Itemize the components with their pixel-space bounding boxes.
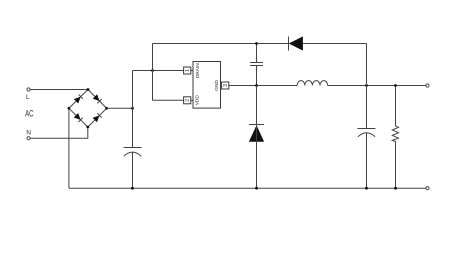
svg-text:DRAIN: DRAIN bbox=[195, 63, 201, 78]
capacitor C1 input filter (polarized) bbox=[124, 147, 142, 149]
svg-text:AC: AC bbox=[25, 108, 34, 119]
wire bridge positive (right node) to input cap node bbox=[107, 107, 133, 109]
wire inductor to output line bbox=[328, 85, 426, 87]
wire VDD line to IC pin 2 bbox=[153, 99, 194, 101]
IC U1 body bbox=[193, 62, 221, 109]
wire top rail bbox=[153, 43, 367, 45]
junction dot R1 bottom rail bbox=[394, 187, 397, 190]
junction dot output line / R1 bbox=[394, 84, 397, 87]
diode D5 on top rail (cathode left) bbox=[289, 36, 303, 50]
wire top rail right end down to output node bbox=[366, 44, 368, 86]
bridge diode D4 (bottom node to right node) bbox=[93, 113, 102, 122]
junction dot drain line / top rail branch bbox=[151, 69, 154, 72]
junction dot D6 bottom rail bbox=[255, 187, 258, 190]
junction dot bridge left node bbox=[68, 107, 71, 110]
junction dot bridge bottom node bbox=[86, 126, 89, 129]
inductor L1 bbox=[297, 81, 327, 86]
capacitor C2 (top, between top rail and switch node) bbox=[250, 62, 263, 64]
wire switch node line from pin 3 to inductor bbox=[229, 85, 297, 87]
junction dot C3 bottom rail bbox=[365, 187, 368, 190]
bridge diode D2 (top node to right node) bbox=[93, 94, 102, 103]
wire C3 to bottom rail bbox=[366, 133, 368, 189]
junction dot bridge right node bbox=[105, 107, 108, 110]
capacitor C3 output (polarized) bbox=[358, 128, 376, 130]
wire N terminal to bridge bottom node bbox=[30, 127, 88, 138]
junction dot top rail / C2 bbox=[255, 42, 258, 45]
svg-text:2: 2 bbox=[185, 99, 191, 102]
wire bridge negative (left node) down to bottom rail bbox=[68, 108, 70, 188]
terminal L (AC live input) bbox=[27, 88, 30, 91]
junction dot switch node / C2 / D6 bbox=[255, 84, 258, 87]
wire output node down to C3 bbox=[366, 86, 368, 129]
wire top rail to C2 bbox=[256, 44, 258, 63]
terminal N (AC neutral input) bbox=[27, 137, 30, 140]
resistor R1 load bbox=[392, 86, 398, 189]
wire switch node down to D6 and to bottom rail bbox=[256, 86, 258, 189]
wire DC+ node down to C1 bbox=[132, 108, 134, 147]
diode D6 freewheeling (cathode up) bbox=[249, 125, 264, 142]
junction dot bridge top node bbox=[87, 88, 90, 91]
svg-text:1: 1 bbox=[185, 69, 191, 72]
wire bottom rail bbox=[69, 187, 426, 189]
svg-text:GND: GND bbox=[214, 80, 220, 91]
wire C2 to switch node line bbox=[256, 66, 258, 86]
wire branch up to top rail and down to VDD pin bbox=[152, 44, 154, 101]
svg-text:L: L bbox=[26, 94, 30, 101]
wire C1 to bottom rail bbox=[132, 152, 134, 188]
junction dot DC+ node bbox=[131, 107, 134, 110]
terminal output negative bbox=[426, 187, 429, 190]
svg-text:VDD: VDD bbox=[195, 95, 201, 106]
wire drain line to IC pin 1 bbox=[133, 70, 194, 72]
IC U1 pin 3 box bbox=[222, 82, 229, 89]
junction dot output node / top rail branch bbox=[365, 84, 368, 87]
wire L terminal to bridge top node bbox=[30, 89, 88, 91]
svg-text:3: 3 bbox=[223, 84, 229, 87]
svg-text:N: N bbox=[26, 129, 31, 136]
bridge diode D3 (left node to bottom node) bbox=[74, 113, 83, 122]
junction dot C1 bottom rail bbox=[131, 187, 134, 190]
bridge rectifier diamond bbox=[69, 90, 107, 128]
IC U1 pin 1 box bbox=[184, 67, 191, 74]
bridge diode D1 (left node to top node) bbox=[74, 94, 83, 103]
terminal output positive bbox=[426, 84, 429, 87]
wire DC+ node up to drain line bbox=[132, 71, 134, 109]
IC U1 pin 2 box bbox=[184, 97, 191, 104]
